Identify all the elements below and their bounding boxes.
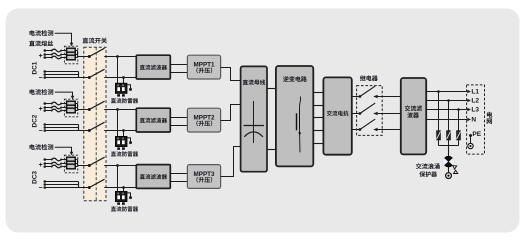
svg-text:N: N [471,117,476,124]
wire MPPT3 output to DC bus [221,147,241,177]
plus terminal sign + of DC1 [39,53,43,60]
label 直流防雷器 for SPD1 [111,98,138,103]
wire DC1+ rail into switch S1 [78,56,90,58]
wire output N from AC filter to grid terminal [426,119,467,121]
relay contact K1-1 (blade with moving-contact arrow) [359,86,378,98]
tap wire L2 down to AC surge protector [448,101,450,131]
wire DC3+ from switch to DC filter FL3 [104,165,136,167]
wire fuse to CT, DC3+ string 1 [61,159,66,161]
wire DC2+ string 2 with terminal dot [44,106,52,109]
wire DC2- string 1 with terminal dot [44,123,79,126]
bus bar joining AC SPD legs [439,145,459,147]
AC filter block FL4 交流滤波器 [401,78,426,154]
terminal arrow and label L1 [467,89,479,96]
label 直流熔丝 (DC fuse) for DC1 fuses [29,40,53,46]
label 继电器 for relay K1 [360,75,378,81]
tap wire DC2- down to SPD2 [123,131,125,137]
junction node on DC3+ for surge protector SPD3 [116,164,119,167]
relay K1 dashed enclosure 继电器 [357,86,383,136]
wire fuse to CT, DC1+ string 1 [61,50,66,52]
junction node on DC1- for surge protector SPD1 [122,76,125,79]
wire MPPT1 output to DC bus [221,68,241,81]
switch pole S1-3 on DC2+ (blade open) [88,101,105,111]
label 交流滤波器 (two lines) [405,105,422,117]
relay contact K1-2 (blade with moving-contact arrow) [359,103,378,115]
svg-text:MPPT3: MPPT3 [194,171,215,178]
wire DC2- rail into switch S1 [79,130,90,132]
svg-text:MPPT1: MPPT1 [194,62,215,69]
surge protective device SPD3 直流防雷器 (two-module block) [115,191,127,204]
tap wire L3 down to AC surge protector [458,110,460,131]
MPPT boost converter U2 MPPT2（升压） [187,108,220,132]
tap wire DC1+ down to SPD1 [117,57,119,84]
MPPT boost converter U3 MPPT3（升压） [187,165,220,189]
input label DC3 (rotated) [32,171,39,184]
junction node on L3 for AC SPD leg [457,108,460,111]
junction node on DC2- for surge protector SPD2 [122,129,125,132]
label 电流检测 (current sense) for DC1 [29,30,53,36]
wire fuse to CT, DC2+ string 2 [61,107,66,109]
current transformer CT1b on DC1+ string 2 [67,52,76,57]
inverter bridge block 逆变电路 [276,66,313,166]
current transformer CT2c on DC2+ string 3 [67,108,76,113]
terminal arrow and label L3 [467,107,479,114]
label 电流检测 (current sense) for DC3 [29,144,53,150]
wire DC2- string 3 with terminal dot [44,129,79,132]
wire G1 to earth electrode [448,167,450,173]
svg-text:L3: L3 [471,107,479,114]
surge protective device SPD2 直流防雷器 (two-module block) [115,136,127,149]
junction node on DC2+ for surge protector SPD2 [116,108,119,111]
dashed enclosure of current-sense CTs, DC3 [64,155,77,173]
wire DC bus - to inverter [267,149,276,151]
DC filter block FL1 直流滤波器 [136,55,170,79]
leader arrow from 电流检测 label to CT box of DC1 [55,33,74,46]
wire fuse to CT, DC3+ string 3 [61,166,66,168]
relay contact K1-3 (blade with moving-contact arrow) [359,119,378,131]
svg-text:L1: L1 [471,89,479,96]
fuse F1b (DC fuse) on DC1+ string 2 [51,53,63,56]
label 交流电抗 [327,111,349,116]
current transformer CT3c on DC3+ string 3 [67,164,76,169]
svg-text:+: + [39,162,43,169]
wire fuse to CT, DC1+ string 2 [61,54,66,56]
junction node on L2 for AC SPD leg [447,99,450,102]
wire DC2+ string 3 with terminal dot [44,109,52,112]
junction node on DC1+ for surge protector SPD1 [116,55,119,58]
svg-text:DC3: DC3 [32,171,39,184]
junction bar merging DC2- strings [78,125,80,131]
wire DC bus + to inverter [267,88,276,90]
earth lead of SPD3 to ground stud [127,193,132,199]
wire DC2- from switch to DC filter FL2 [104,130,136,132]
wire DC2+ from switch to DC filter FL2 [104,109,136,111]
dashed enclosure of current-sense CTs, DC2 [64,99,77,117]
svg-text:DC1: DC1 [32,61,39,74]
grid connection dashed enclosure 电网 [467,85,485,154]
current transformer CT1c on DC1+ string 3 [67,55,76,60]
leader arrow from 电流检测 label to CT box of DC2 [55,92,75,99]
input label DC1 (rotated) [32,61,39,74]
fuse F2a (DC fuse) on DC2+ string 1 [51,102,63,105]
input label DC2 (rotated) [32,114,39,127]
terminal arrow and label N [467,117,476,124]
AC SPD varistor module MOV3 on L3 [457,131,461,146]
svg-text:−: − [39,128,43,135]
switch pole S1-2 on DC1- (blade open) [88,69,105,79]
current transformer CT3a on DC3+ string 1 [67,157,76,162]
fuse F2c (DC fuse) on DC2+ string 3 [51,109,63,112]
wire output L3 from AC filter to grid terminal [426,109,467,111]
current transformer CT2b on DC2+ string 2 [67,105,76,110]
junction bar merging DC3- strings [78,182,80,188]
junction bar merging DC2+ strings [75,104,77,111]
fuse F2b (DC fuse) on DC2+ string 2 [51,106,63,109]
wire DC1- from switch to DC filter FL1 [104,77,136,79]
wire output L2 from AC filter to grid terminal [426,100,467,102]
DC switch S1 dashed enclosure 直流开关 [84,47,106,201]
plus terminal sign + of DC2 [39,106,43,113]
wire DC1+ from switch to DC filter FL1 [104,56,136,58]
wire fuse to CT, DC1+ string 3 [61,57,66,59]
wire AC phase W relay to AC filter [378,129,401,131]
dashed enclosure of current-sense CTs, DC1 [64,46,77,64]
wire DC1- string 2 with terminal dot [44,73,79,76]
wire DC3- rail into switch S1 [79,187,90,189]
gas discharge tube / spark gap G1 (black disc, white bow-tie) [443,156,455,167]
svg-text:L2: L2 [471,98,479,105]
tap wire L1 down to AC surge protector [438,92,440,131]
wire pair DC filter FL1 to MPPT1 [170,65,187,73]
wire DC1- string 1 with terminal dot [44,70,79,73]
svg-text:DC2: DC2 [32,114,39,127]
wire DC3- string 1 with terminal dot [44,180,79,183]
fuse F1c (DC fuse) on DC1+ string 3 [51,56,63,59]
wire DC1- string 3 with terminal dot [44,76,79,79]
wire MPPT2 output to DC bus [221,105,241,121]
earth lead of SPD2 to ground stud [127,138,132,144]
wire DC3- string 2 with terminal dot [44,183,79,186]
wire AC phase U reactor to relay K1 [352,96,360,98]
wire DC3+ rail into switch S1 [78,165,90,167]
capacitor C1 (DC-link, polarized) [244,101,265,143]
wire fuse to CT, DC3+ string 2 [61,163,66,165]
wire DC3+ string 2 with terminal dot [44,162,52,165]
label 直流母线 [243,80,265,85]
label 交流浪涌保护器 for AC SPD [416,163,440,177]
label 直流防雷器 for SPD2 [111,151,138,156]
current transformer CT1a on DC1+ string 1 [67,48,76,53]
fuse F3c (DC fuse) on DC3+ string 3 [51,165,63,168]
junction bar merging DC1+ strings [75,51,77,58]
DC bus block 直流母线 with link capacitor [241,66,267,171]
svg-text:−: − [39,185,43,192]
svg-text:+: + [39,106,43,113]
label 逆变电路 [283,76,307,82]
junction node on L1 for AC SPD leg [437,90,440,93]
wire pair DC filter FL3 to MPPT3 [170,174,187,182]
wire DC2- string 2 with terminal dot [44,126,79,129]
wire AC phase V relay to AC filter [378,113,401,115]
wire DC1+ string 1 with terminal dot [44,49,52,52]
label 电流检测 (current sense) for DC2 [29,89,53,95]
fuse F1a (DC fuse) on DC1+ string 1 [51,49,63,52]
junction bar merging DC3+ strings [75,160,77,167]
AC SPD varistor module MOV2 on L2 [447,131,451,146]
leader arrow from 电流检测 label to CT box of DC3 [55,147,74,155]
label 直流开关 for switch S1 [83,38,107,44]
minus terminal sign - of DC3 [39,185,43,192]
wire fuse to CT, DC2+ string 3 [61,110,66,112]
svg-text:−: − [39,75,43,82]
svg-text:+: + [39,53,43,60]
svg-text:PE: PE [472,131,481,138]
wire DC3- from switch to DC filter FL3 [104,187,136,189]
minus terminal sign - of DC1 [39,75,43,82]
AC SPD varistor module MOV1 on L1 [437,131,441,146]
DC filter block FL2 直流滤波器 [136,108,170,132]
tap wire DC3- down to SPD3 [123,188,125,192]
fuse F3b (DC fuse) on DC3+ string 2 [51,162,63,165]
tap wire DC3+ down to SPD3 [117,166,119,192]
switch pole S1-6 on DC3- (blade open) [88,179,105,189]
IGBT Q1 symbol inside inverter [297,97,302,153]
wire output L1 from AC filter to grid terminal [426,91,467,93]
wire pair DC filter FL2 to MPPT2 [170,118,187,126]
wire DC3+ string 1 with terminal dot [44,158,52,161]
junction bar merging DC1- strings [78,72,80,78]
minus terminal sign - of DC2 [39,128,43,135]
plus terminal sign + of DC3 [39,162,43,169]
wire DC2+ rail into switch S1 [78,109,90,111]
terminal PE with protective-earth stud [468,131,482,149]
wire DC1+ string 2 with terminal dot [44,53,52,56]
wire bundle (5 links) inverter to AC reactor [313,93,323,144]
wire SPD common down to gas discharge tube [448,146,450,157]
DC filter block FL3 直流滤波器 [136,165,170,189]
terminal arrow and label L2 [467,98,479,105]
surge protective device SPD1 直流防雷器 (two-module block) [115,83,127,96]
wire DC1+ string 3 with terminal dot [44,56,52,59]
switch pole S1-4 on DC2- (blade open) [88,122,105,132]
MPPT boost converter U1 MPPT1（升压） [187,55,220,79]
earth electrode symbol (circle-dot) below G1 [446,173,452,179]
tap wire DC2+ down to SPD2 [117,110,119,137]
label 电网 (grid), vertical [487,112,493,124]
wire AC phase W reactor to relay K1 [352,129,360,131]
wire DC3+ string 3 with terminal dot [44,165,52,168]
sparkover marks (open triangles) beside G1 [453,166,458,174]
fuse F3a (DC fuse) on DC3+ string 1 [51,158,63,161]
tap wire DC1- down to SPD1 [123,78,125,84]
current transformer CT3b on DC3+ string 2 [67,161,76,166]
AC reactor block L1 交流电抗 [323,77,351,154]
wire DC3- string 3 with terminal dot [44,186,79,189]
label 直流防雷器 for SPD3 [111,206,138,211]
junction node on DC3- for surge protector SPD3 [122,186,125,189]
current transformer CT2a on DC2+ string 1 [67,101,76,106]
wire DC2+ string 1 with terminal dot [44,102,52,105]
earth lead of SPD1 to ground stud [127,85,132,91]
svg-text:MPPT2: MPPT2 [194,115,215,122]
wire AC phase V reactor to relay K1 [352,113,360,115]
wire AC phase U relay to AC filter [378,96,401,98]
switch pole S1-1 on DC1+ (blade open) [88,48,105,58]
wire DC1- rail into switch S1 [79,77,90,79]
switch pole S1-5 on DC3+ (blade open) [88,157,105,167]
wire fuse to CT, DC2+ string 1 [61,103,66,105]
